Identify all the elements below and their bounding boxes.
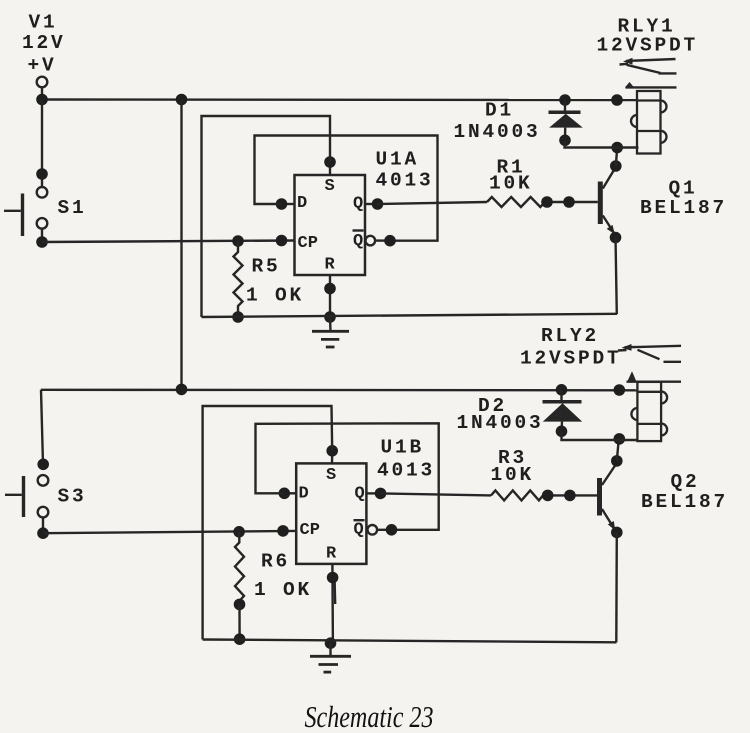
svg-text:10K: 10K	[491, 464, 535, 486]
junction	[176, 384, 188, 396]
label 4013 B	[377, 460, 435, 482]
label R6	[261, 550, 290, 572]
svg-text:D: D	[299, 485, 309, 504]
label V1	[29, 12, 58, 34]
transistor Q2	[597, 463, 617, 531]
label R1	[497, 156, 526, 178]
junction	[611, 142, 623, 154]
svg-text:S: S	[326, 466, 336, 485]
junction	[279, 488, 291, 500]
svg-text:Q: Q	[353, 195, 363, 214]
junction	[556, 384, 568, 396]
wire	[562, 431, 638, 440]
svg-text:4013: 4013	[377, 460, 435, 482]
svg-text:BEL187: BEL187	[641, 491, 728, 513]
svg-text:1N4003: 1N4003	[454, 121, 541, 143]
junction	[176, 94, 188, 106]
wire ground rail	[202, 314, 618, 317]
wire	[41, 100, 43, 188]
wire base net	[545, 201, 598, 203]
junction	[386, 524, 398, 536]
wire D feedback loop B	[256, 423, 439, 530]
wire S loop	[202, 116, 331, 317]
switch S3	[5, 475, 48, 517]
junction	[234, 633, 246, 645]
resistor R5	[234, 241, 243, 317]
svg-text:S3: S3	[58, 485, 87, 507]
flip-flop U1A	[295, 175, 366, 275]
svg-text:Schematic 23: Schematic 23	[305, 699, 434, 733]
pin S B	[331, 451, 334, 464]
flip-flop U1B	[296, 463, 366, 564]
wire	[616, 148, 617, 167]
transistor Q1	[598, 167, 616, 234]
junction	[36, 168, 48, 180]
junction	[542, 490, 554, 502]
wire D feedback loop	[255, 136, 438, 241]
junction collector B	[611, 455, 623, 467]
wire	[565, 140, 639, 147]
svg-text:BEL187: BEL187	[640, 197, 727, 219]
svg-text:Q: Q	[354, 521, 364, 540]
junction	[36, 236, 48, 248]
svg-text:1 OK: 1 OK	[246, 284, 304, 306]
label BEL187	[640, 197, 727, 219]
label 12V	[22, 32, 66, 54]
junction	[611, 94, 623, 106]
svg-text:R: R	[326, 545, 337, 564]
wire	[377, 529, 391, 531]
pin R B	[331, 564, 334, 644]
wire emitter to ground rail	[616, 238, 617, 315]
svg-text:12V: 12V	[22, 32, 66, 54]
junction	[556, 426, 568, 438]
ground B	[310, 643, 351, 672]
pin Q B	[366, 492, 380, 494]
svg-text:+V: +V	[28, 55, 57, 77]
junction	[326, 445, 338, 457]
junction	[37, 459, 49, 471]
junction	[325, 637, 337, 649]
junction	[234, 599, 246, 611]
pin CP B	[300, 521, 320, 540]
wire	[41, 229, 43, 242]
wire base net B	[543, 494, 597, 496]
relay RLY2 contacts	[618, 344, 681, 382]
junction	[384, 235, 396, 247]
junction	[233, 526, 245, 538]
label RLY1	[618, 16, 676, 38]
svg-text:V1: V1	[29, 12, 58, 34]
wire ground rail B	[203, 640, 617, 643]
inverter bubble B	[368, 525, 378, 535]
wire Q to R3	[381, 493, 492, 495]
junction	[37, 527, 49, 539]
svg-text:D1: D1	[485, 100, 514, 122]
label 12VSPDT	[597, 35, 699, 57]
wire CP net B	[43, 531, 296, 533]
node +V rail B	[41, 389, 638, 392]
label S3	[58, 485, 87, 507]
wire Q to R1	[378, 202, 488, 204]
svg-text:Q: Q	[355, 485, 365, 504]
svg-text:12VSPDT: 12VSPDT	[597, 35, 699, 57]
label R1 value 10K	[489, 172, 533, 194]
svg-text:Q2: Q2	[671, 471, 700, 493]
label R3	[498, 447, 527, 469]
svg-text:U1A: U1A	[376, 148, 420, 170]
junction	[232, 311, 244, 323]
junction	[559, 135, 571, 147]
resistor R6	[235, 532, 244, 605]
svg-text:CP: CP	[300, 521, 320, 540]
junction	[324, 156, 336, 168]
label RLY2	[541, 325, 599, 347]
junction	[276, 198, 288, 210]
junction	[372, 198, 384, 210]
label D1	[485, 100, 514, 122]
label 4013	[376, 169, 434, 191]
label Q1	[669, 177, 698, 199]
junction	[541, 196, 553, 208]
wire stub	[333, 580, 336, 604]
relay RLY1 coil	[631, 91, 667, 154]
junction	[614, 433, 626, 445]
pin Qbar B	[354, 521, 364, 540]
junction	[276, 235, 288, 247]
svg-text:RLY2: RLY2	[541, 325, 599, 347]
wire emitter to ground rail B	[615, 532, 618, 642]
svg-text:12VSPDT: 12VSPDT	[520, 348, 622, 370]
label 1N4003	[454, 121, 541, 143]
label R6 value 1 OK	[254, 579, 312, 601]
svg-text:R: R	[325, 256, 336, 275]
junction	[232, 235, 244, 247]
pin D B	[284, 492, 296, 494]
node +V rail	[42, 98, 638, 101]
junction	[559, 94, 571, 106]
junction emitter	[610, 232, 622, 244]
wire	[41, 88, 43, 100]
label BEL187 B	[641, 491, 728, 513]
label D2	[478, 395, 507, 417]
inverter bubble	[366, 236, 376, 246]
pin S	[329, 162, 331, 175]
junction	[614, 384, 626, 396]
wire S loop B	[203, 406, 333, 640]
relay RLY2 coil	[631, 382, 667, 441]
label 12VSPDT B	[520, 348, 622, 370]
label R5 value 1 OK	[246, 284, 304, 306]
svg-text:Q: Q	[353, 232, 363, 251]
wire	[617, 439, 619, 461]
wire	[180, 100, 182, 390]
junction	[36, 94, 48, 106]
svg-text:Q1: Q1	[669, 177, 698, 199]
pin D	[282, 203, 295, 205]
junction	[563, 196, 575, 208]
resistor R3	[491, 490, 543, 500]
pin Qbar	[353, 232, 363, 251]
svg-text:S1: S1	[58, 197, 87, 219]
svg-text:D: D	[297, 194, 307, 213]
junction emitter B	[611, 527, 623, 539]
svg-text:1 OK: 1 OK	[254, 579, 312, 601]
svg-text:10K: 10K	[489, 172, 533, 194]
svg-text:4013: 4013	[376, 169, 434, 191]
resistor R1	[487, 197, 545, 207]
wire	[41, 390, 43, 465]
svg-text:S: S	[325, 177, 335, 196]
svg-text:1N4003: 1N4003	[457, 412, 544, 434]
diode D2	[543, 390, 583, 431]
junction	[375, 488, 387, 500]
pin CP	[298, 234, 318, 253]
label U1A	[376, 148, 420, 170]
junction	[564, 490, 576, 502]
junction	[324, 311, 336, 323]
diode D1	[549, 100, 583, 140]
terminal V1	[37, 77, 48, 88]
label S1	[58, 197, 87, 219]
svg-text:CP: CP	[298, 234, 318, 253]
junction collector	[610, 160, 622, 172]
caption Schematic 23	[305, 699, 434, 733]
ground	[312, 317, 349, 347]
label R3 value 10K	[491, 464, 535, 486]
junction	[277, 525, 289, 537]
wire	[238, 604, 241, 639]
label +V	[28, 55, 57, 77]
label U1B	[381, 436, 425, 458]
switch S1	[4, 187, 47, 236]
svg-text:R6: R6	[261, 550, 290, 572]
pin R	[329, 275, 331, 317]
label Q2	[671, 471, 700, 493]
junction	[324, 283, 336, 295]
wire CP net	[42, 241, 295, 243]
wire	[375, 239, 390, 241]
label R5	[252, 255, 281, 277]
relay RLY1 contacts	[620, 58, 677, 88]
label 1N4003 B	[457, 412, 544, 434]
svg-text:R5: R5	[252, 255, 281, 277]
wire	[42, 518, 44, 534]
pin Q	[365, 203, 378, 205]
svg-text:U1B: U1B	[381, 436, 425, 458]
junction	[327, 572, 339, 584]
